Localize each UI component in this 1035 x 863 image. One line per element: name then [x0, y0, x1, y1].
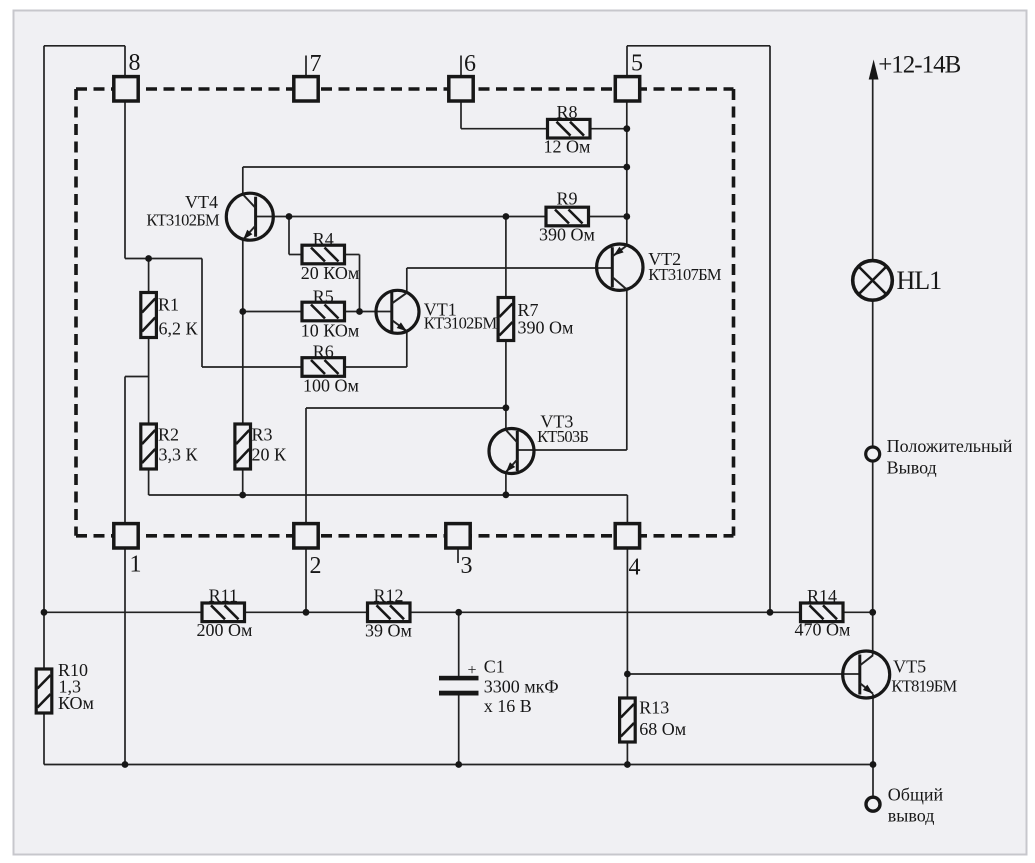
- svg-text:Общий: Общий: [888, 785, 944, 805]
- resistor R2: [141, 424, 199, 469]
- wire pin2 bottom: [305, 549, 307, 612]
- pin 4: [615, 524, 639, 548]
- wire R7 bottom to VT3: [505, 340, 507, 430]
- svg-text:х 16 В: х 16 В: [484, 696, 532, 716]
- wire pin6 down: [460, 102, 462, 128]
- wire R5 right: [345, 311, 392, 313]
- resistor R3: [235, 424, 287, 469]
- wire VT3 emitter down: [505, 473, 507, 495]
- wire pin1 rail: [124, 377, 126, 765]
- wire R9 right: [589, 216, 627, 218]
- wire VT1 collector up: [406, 268, 408, 293]
- transistor VT4: [146, 192, 273, 240]
- svg-text:390 Ом: 390 Ом: [539, 225, 595, 245]
- wire VT3 base: [517, 449, 627, 451]
- wire node line y268: [407, 267, 613, 269]
- wire VT2 collector down: [626, 290, 628, 451]
- svg-text:20 К: 20 К: [252, 445, 288, 465]
- transistor VT5: [843, 651, 958, 698]
- wire bus segment a: [44, 611, 202, 613]
- wire node line y495: [149, 494, 628, 496]
- resistor R11: [197, 586, 253, 641]
- lamp HL1: [853, 261, 941, 301]
- resistor R1: [141, 293, 199, 339]
- wire pin8 bottom: [124, 102, 126, 258]
- wire R6 right: [345, 366, 407, 368]
- svg-text:Положительный: Положительный: [887, 436, 1013, 456]
- svg-text:5: 5: [631, 51, 643, 77]
- wire VT4 collector: [242, 167, 244, 195]
- wire: [125, 258, 202, 260]
- svg-text:4: 4: [629, 555, 641, 581]
- svg-text:3: 3: [461, 553, 473, 579]
- wire R1 top: [148, 259, 150, 294]
- wire R2 bottom: [148, 468, 150, 495]
- wire VT5 emitter down: [872, 694, 874, 765]
- wire pin3 stub: [457, 549, 459, 563]
- wire R4 left: [289, 254, 302, 256]
- svg-text:470 Ом: 470 Ом: [795, 620, 851, 640]
- wire: [359, 255, 361, 312]
- svg-text:7: 7: [310, 51, 322, 77]
- svg-text:Вывод: Вывод: [887, 458, 937, 478]
- wire C1 top: [458, 612, 460, 676]
- pin 2: [294, 524, 318, 548]
- svg-text:КТ503Б: КТ503Б: [537, 427, 588, 446]
- svg-text:R3: R3: [252, 424, 273, 444]
- resistor R6: [302, 342, 359, 396]
- wire R7 top: [505, 217, 507, 299]
- wire R1 bottom: [148, 337, 150, 377]
- svg-text:6: 6: [464, 51, 476, 77]
- wire pin8 top: [124, 46, 126, 76]
- svg-text:R6: R6: [313, 342, 334, 362]
- svg-text:10 КОм: 10 КОм: [301, 321, 359, 341]
- svg-text:VT4: VT4: [185, 192, 218, 212]
- supply arrow +12-14V: [869, 52, 961, 80]
- svg-text:КТ819БМ: КТ819БМ: [891, 677, 957, 696]
- wire pin2 top: [305, 408, 307, 522]
- pin 8: [114, 77, 138, 101]
- wire top-left horizontal: [44, 45, 125, 47]
- wire pin6 stub: [460, 56, 462, 76]
- svg-text:VT5: VT5: [893, 656, 926, 676]
- svg-text:100 Ом: 100 Ом: [303, 376, 359, 396]
- wire bus segment c: [410, 611, 801, 613]
- svg-text:C1: C1: [484, 657, 505, 677]
- transistor VT3: [489, 411, 588, 473]
- svg-text:390 Ом: 390 Ом: [518, 318, 574, 338]
- svg-text:КТ3107БМ: КТ3107БМ: [648, 265, 722, 284]
- svg-text:R8: R8: [556, 102, 577, 122]
- wire bus segment d: [843, 611, 873, 613]
- common terminal: [866, 785, 943, 826]
- wire R13 bottom: [626, 742, 628, 765]
- wire: [125, 376, 149, 378]
- pin 5: [615, 77, 639, 101]
- pin 1: [114, 524, 138, 548]
- transistor VT1: [376, 290, 497, 333]
- svg-text:R13: R13: [639, 698, 669, 718]
- wire R10 bottom: [43, 713, 45, 765]
- svg-text:HL1: HL1: [897, 266, 942, 295]
- resistor R14: [795, 586, 851, 640]
- wire supply rail middle: [872, 300, 874, 656]
- wire pin7 stub: [305, 56, 307, 76]
- pin 6: [449, 77, 473, 101]
- wire pin5 top: [626, 46, 628, 76]
- resistor R13: [620, 698, 687, 742]
- svg-text:+: +: [467, 662, 476, 679]
- pin 3: [446, 524, 470, 548]
- wire left rail: [43, 46, 45, 613]
- wire node line y167: [243, 166, 627, 168]
- svg-text:R4: R4: [313, 229, 334, 249]
- svg-text:12 Ом: 12 Ом: [544, 137, 591, 157]
- wire R3 bottom: [242, 468, 244, 495]
- wire: [201, 259, 203, 368]
- svg-text:КТ3102БМ: КТ3102БМ: [424, 314, 498, 333]
- wire pin4 top: [626, 495, 628, 522]
- resistor R5: [301, 287, 359, 341]
- wire R4 right: [345, 254, 360, 256]
- wire C1 bottom: [458, 696, 460, 765]
- wire top-right horizontal: [627, 45, 770, 47]
- resistor R12: [365, 586, 412, 641]
- svg-text:КТ3102БМ: КТ3102БМ: [146, 211, 220, 230]
- svg-text:3,3 К: 3,3 К: [159, 445, 199, 465]
- wire pin4 down: [626, 549, 628, 698]
- svg-text:39 Ом: 39 Ом: [365, 621, 412, 641]
- capacitor C1: [439, 657, 559, 716]
- svg-text:+12-14В: +12-14В: [878, 52, 960, 79]
- svg-text:200 Ом: 200 Ом: [197, 620, 253, 640]
- svg-text:1: 1: [130, 552, 142, 578]
- resistor R7: [498, 298, 573, 341]
- node dots: [145, 255, 152, 262]
- wire supply rail top: [872, 78, 874, 261]
- resistor R10: [36, 660, 94, 713]
- transistor VT2: [597, 244, 722, 290]
- svg-text:3300 мкФ: 3300 мкФ: [484, 676, 559, 696]
- wire bus segment b: [245, 611, 368, 613]
- wire right-mid rail: [769, 46, 771, 613]
- wire R2 top: [148, 377, 150, 425]
- svg-text:R14: R14: [807, 586, 837, 606]
- svg-text:КОм: КОм: [58, 693, 94, 713]
- wire R10 top: [43, 612, 45, 669]
- wire node line y408: [306, 407, 506, 409]
- svg-text:R11: R11: [209, 586, 238, 606]
- IC dashed box: [76, 89, 734, 536]
- wire to common terminal: [872, 765, 874, 798]
- wire bottom bus: [44, 764, 873, 766]
- wire R8 left: [461, 128, 548, 130]
- svg-text:R2: R2: [158, 424, 179, 444]
- pin 7: [294, 77, 318, 101]
- svg-text:R1: R1: [158, 295, 179, 315]
- svg-text:R12: R12: [373, 586, 403, 606]
- svg-text:20 КОм: 20 КОм: [301, 263, 359, 283]
- wire VT4 base to R9: [256, 216, 547, 218]
- wire VT5 base: [627, 673, 859, 675]
- resistor R4: [301, 229, 359, 283]
- svg-text:68 Ом: 68 Ом: [639, 719, 686, 739]
- svg-text:вывод: вывод: [888, 806, 935, 826]
- wire R5 left: [243, 311, 302, 313]
- wire VT4 emitter rail: [242, 240, 244, 425]
- wire R4 branch: [288, 217, 290, 255]
- wire R6 left: [202, 366, 302, 368]
- svg-text:R9: R9: [556, 189, 577, 209]
- svg-text:R5: R5: [313, 287, 334, 307]
- svg-text:6,2 К: 6,2 К: [159, 319, 199, 339]
- wire R8 right: [590, 128, 627, 130]
- positive terminal: [866, 436, 1013, 477]
- wire pin5 down to VT2: [626, 102, 628, 245]
- wire VT1 emitter down: [406, 331, 408, 367]
- svg-text:2: 2: [310, 553, 322, 579]
- resistor R9: [539, 189, 595, 245]
- svg-text:8: 8: [129, 50, 141, 76]
- resistor R8: [544, 102, 591, 157]
